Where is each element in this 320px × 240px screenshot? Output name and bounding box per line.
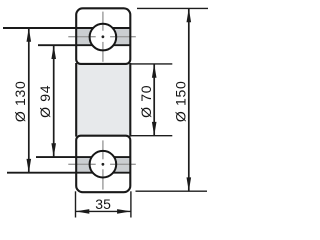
- dimension Ø70 bottom extension line: [131, 135, 173, 137]
- dimension Ø150 line: [188, 8, 190, 191]
- dimension Ø70 top extension line: [131, 63, 173, 65]
- svg-text:Ø 70: Ø 70: [138, 85, 154, 118]
- dimension Ø94 bottom arrow: [51, 143, 56, 157]
- top ring section outline: [76, 8, 130, 64]
- svg-text:Ø 130: Ø 130: [12, 80, 28, 122]
- dimension Ø150 top extension line: [137, 7, 208, 9]
- dimension Ø130 top arrow: [27, 28, 32, 42]
- top ball white body: [90, 24, 117, 51]
- dimension Ø70 bottom arrow: [152, 122, 157, 136]
- bottom ball outline: [90, 151, 117, 178]
- bottom ball vertical centerline upper arm: [102, 140, 104, 159]
- dimension 35 line: [76, 210, 131, 212]
- dimension Ø130 bottom arrow: [27, 159, 32, 173]
- dimension Ø150 bottom extension line: [136, 190, 208, 192]
- bottom cage band (shaded): [77, 157, 129, 173]
- dimension 35 left arrow: [76, 209, 90, 214]
- bottom ball center dot: [102, 163, 105, 166]
- top outer raceway line + Ø130 top extension line: [3, 27, 130, 29]
- bottom inner raceway line + Ø94 bottom extension line: [36, 156, 130, 158]
- dimension Ø70 line: [153, 64, 155, 136]
- svg-text:Ø 94: Ø 94: [37, 85, 53, 118]
- dimension 35 left extension line: [75, 191, 77, 217]
- bore right side line: [129, 63, 131, 137]
- bore region (shaded middle block): [76, 64, 130, 136]
- top inner raceway line + Ø94 top extension line: [38, 44, 130, 46]
- dimension Ø94 line: [53, 45, 55, 157]
- bottom ball white body: [90, 151, 117, 178]
- top cage band (shaded): [77, 28, 129, 45]
- bottom ball horizontal centerline right arm: [110, 163, 136, 165]
- bore left side line: [75, 63, 77, 137]
- svg-text:35: 35: [95, 196, 111, 212]
- bottom ring section white body: [76, 136, 130, 193]
- bottom ring section outline: [76, 136, 130, 193]
- bottom ball vertical centerline lower arm: [102, 169, 104, 189]
- dimension Ø150 top arrow: [187, 8, 192, 22]
- top ball outline: [90, 24, 117, 51]
- dimension 35 right arrow: [117, 209, 131, 214]
- dimension 35 right extension line: [130, 191, 132, 217]
- bottom ball horizontal centerline left arm: [68, 163, 95, 165]
- top ball horizontal centerline left arm: [68, 36, 95, 38]
- top ball center dot: [102, 35, 105, 38]
- dimension Ø130 line: [28, 28, 30, 173]
- dimension Ø150 bottom arrow: [187, 177, 192, 191]
- top ball horizontal centerline right arm: [110, 36, 136, 38]
- dimension Ø70 top arrow: [152, 64, 157, 78]
- bottom outer raceway line + Ø130 bottom extension line: [7, 172, 130, 174]
- dimension Ø94 top arrow: [51, 45, 56, 59]
- top ball vertical centerline lower arm: [102, 42, 104, 62]
- svg-text:Ø 150: Ø 150: [173, 80, 189, 122]
- top ball vertical centerline upper arm: [102, 12, 104, 31]
- top ring section white body: [76, 8, 130, 64]
